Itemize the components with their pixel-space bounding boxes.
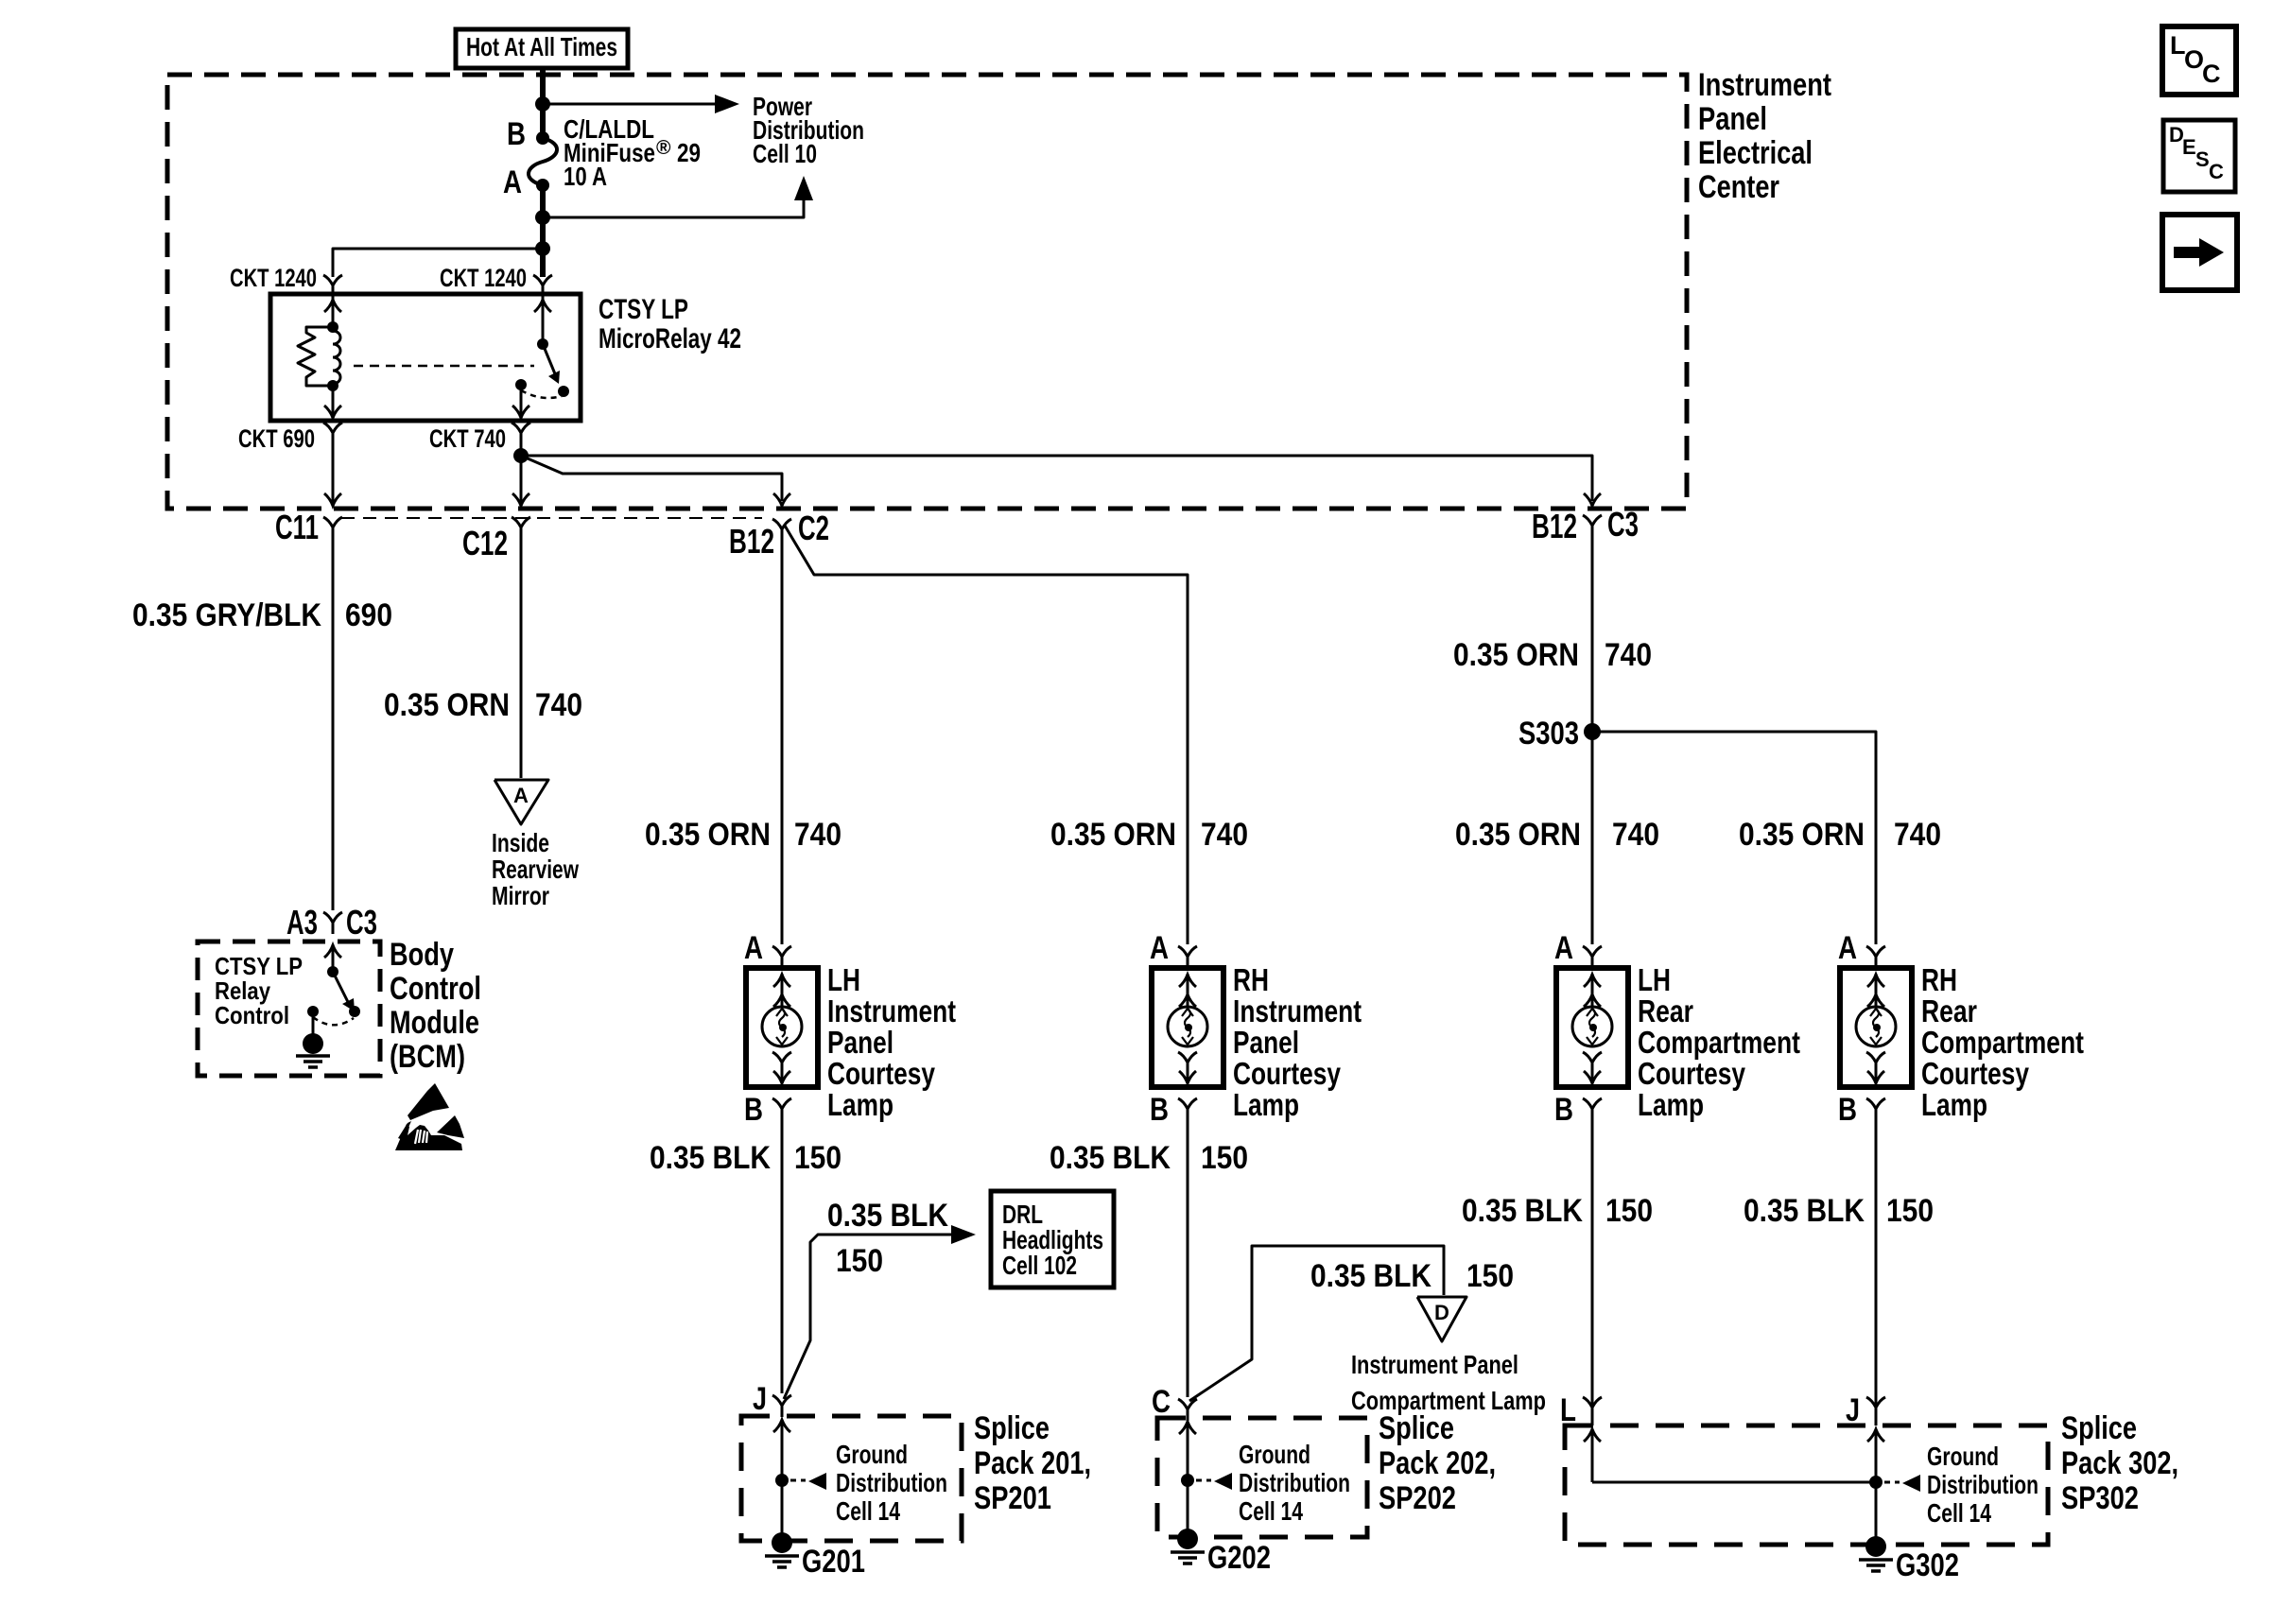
- svg-text:D: D: [1434, 1301, 1449, 1324]
- splice pack 302 enclosure (dashed): [1565, 1425, 2048, 1545]
- svg-text:Distribution: Distribution: [1927, 1470, 2039, 1499]
- svg-text:SP202: SP202: [1379, 1480, 1456, 1516]
- wire: IP compartment lamp branch: [1189, 1246, 1444, 1401]
- svg-text:0.35 BLK: 0.35 BLK: [1744, 1193, 1865, 1229]
- svg-text:LH: LH: [827, 962, 860, 997]
- svg-text:Lamp: Lamp: [1921, 1087, 1987, 1122]
- wire L into SP302: [1584, 1429, 1601, 1442]
- svg-text:0.35 ORN: 0.35 ORN: [1453, 637, 1579, 673]
- svg-text:C3: C3: [1607, 505, 1639, 544]
- svg-text:Panel: Panel: [1233, 1025, 1299, 1060]
- svg-text:B12: B12: [1532, 507, 1577, 545]
- wire J into SP302: [1867, 1429, 1884, 1442]
- wire 150: RH IP lamp to splice pack 202: [1187, 1120, 1189, 1397]
- splice junction (SP302): [1869, 1476, 1883, 1489]
- svg-text:S303: S303: [1518, 716, 1579, 752]
- svg-text:RH: RH: [1921, 962, 1957, 997]
- svg-text:O: O: [2184, 45, 2204, 74]
- wire: branch to relay coil input: [333, 249, 543, 277]
- relay switch output lead: [520, 385, 523, 416]
- ground distribution ref (SP202): [1196, 1479, 1211, 1482]
- svg-text:Control: Control: [215, 1001, 289, 1029]
- svg-text:C11: C11: [275, 508, 319, 546]
- svg-text:29: 29: [677, 138, 701, 167]
- svg-text:A: A: [503, 164, 522, 200]
- svg-text:G201: G201: [802, 1544, 865, 1580]
- junction: relay feed split: [535, 241, 550, 256]
- svg-text:B: B: [1838, 1092, 1857, 1128]
- svg-text:Center: Center: [1698, 169, 1779, 205]
- svg-text:740: 740: [1894, 817, 1941, 853]
- ground distribution ref (SP302): [1884, 1481, 1900, 1484]
- svg-text:C: C: [2202, 60, 2221, 88]
- wire 150: LH rear lamp to splice pack 302: [1591, 1120, 1594, 1425]
- svg-text:G202: G202: [1207, 1540, 1271, 1576]
- legend box: page arrow: [2162, 215, 2237, 290]
- svg-text:Rearview: Rearview: [492, 855, 579, 884]
- svg-text:0.35 BLK: 0.35 BLK: [827, 1198, 948, 1234]
- off-page ref A: inside rearview mirror: [495, 780, 548, 824]
- svg-text:CTSY LP: CTSY LP: [599, 294, 688, 325]
- svg-text:B: B: [507, 116, 526, 152]
- svg-text:B: B: [1150, 1092, 1169, 1128]
- svg-text:Courtesy: Courtesy: [1638, 1056, 1746, 1091]
- svg-text:0.35 ORN: 0.35 ORN: [1050, 817, 1176, 853]
- relay coil input lead: [332, 297, 335, 327]
- svg-text:Courtesy: Courtesy: [827, 1056, 936, 1091]
- wire into SP202: [1179, 1422, 1196, 1434]
- svg-text:(BCM): (BCM): [390, 1039, 465, 1075]
- splice pack 202 enclosure (dashed): [1157, 1418, 1367, 1537]
- svg-text:Distribution: Distribution: [836, 1468, 947, 1497]
- svg-text:C: C: [2209, 160, 2224, 183]
- svg-text:A: A: [1554, 930, 1573, 966]
- ESD sensitivity symbol: [395, 1083, 464, 1150]
- ground distribution ref (SP201): [790, 1479, 806, 1482]
- wire: 740 feed to B12/C2: [521, 456, 782, 501]
- wire 740: B12/C3 to S303: [1591, 535, 1594, 732]
- svg-text:Cell 14: Cell 14: [836, 1496, 900, 1526]
- wire: power distribution branch 2: [543, 187, 804, 217]
- BCM enclosure (dashed): CTSY LP Relay Control: [198, 942, 380, 1076]
- svg-text:0.35 ORN: 0.35 ORN: [384, 687, 510, 723]
- svg-text:0.35 BLK: 0.35 BLK: [1462, 1193, 1583, 1229]
- wire CKT 740 down to C12: [520, 444, 523, 503]
- svg-text:Pack 202,: Pack 202,: [1379, 1445, 1496, 1481]
- svg-text:Splice: Splice: [2061, 1410, 2137, 1446]
- svg-text:Module: Module: [390, 1005, 479, 1041]
- svg-text:Ground: Ground: [836, 1440, 908, 1469]
- svg-text:Splice: Splice: [974, 1410, 1050, 1446]
- svg-text:A: A: [513, 784, 529, 807]
- svg-text:Instrument: Instrument: [1698, 67, 1831, 103]
- svg-text:®: ®: [656, 137, 671, 159]
- svg-text:J: J: [1846, 1392, 1860, 1428]
- svg-text:S: S: [2195, 147, 2210, 171]
- splice S303: [1584, 723, 1601, 740]
- svg-text:740: 740: [1605, 637, 1652, 673]
- svg-text:0.35 BLK: 0.35 BLK: [650, 1140, 771, 1176]
- svg-text:Pack 302,: Pack 302,: [2061, 1445, 2178, 1481]
- off-page ref D: instrument panel compartment lamp: [1417, 1297, 1466, 1341]
- svg-text:SP201: SP201: [974, 1480, 1051, 1516]
- wire: power distribution branch 1: [543, 103, 717, 106]
- svg-text:740: 740: [1201, 817, 1248, 853]
- BCM internal ground: [303, 1033, 323, 1054]
- svg-text:0.35 ORN: 0.35 ORN: [1455, 817, 1581, 853]
- svg-text:Distribution: Distribution: [1239, 1468, 1350, 1497]
- svg-text:Splice: Splice: [1379, 1410, 1454, 1446]
- wire 740: B12/C2 to LH IP lamp: [781, 541, 784, 944]
- svg-text:Instrument: Instrument: [827, 993, 956, 1028]
- ground G202: [1177, 1529, 1198, 1549]
- svg-text:B: B: [1554, 1092, 1573, 1128]
- fuse F29: C/LALDL MiniFuse 29 10 A: [536, 131, 549, 145]
- svg-text:740: 740: [1612, 817, 1659, 853]
- wire 740: C12 to inside rearview mirror: [520, 539, 523, 778]
- wire: 740 feed across to B12/C3: [521, 456, 1592, 501]
- off-page box: DRL Headlights Cell 102: [991, 1191, 1114, 1287]
- svg-text:Pack 201,: Pack 201,: [974, 1445, 1091, 1481]
- svg-text:0.35 ORN: 0.35 ORN: [645, 817, 771, 853]
- svg-text:C: C: [1152, 1384, 1171, 1420]
- svg-text:A: A: [1838, 930, 1857, 966]
- svg-text:A: A: [1150, 930, 1169, 966]
- svg-text:150: 150: [794, 1140, 842, 1176]
- svg-text:Lamp: Lamp: [1233, 1087, 1299, 1122]
- splice link wire (SP302): [1592, 1481, 1876, 1484]
- svg-text:Ground: Ground: [1927, 1442, 1999, 1471]
- wire CKT 690 down to C11: [332, 444, 335, 503]
- wire: fuse output down to relay: [540, 185, 546, 277]
- relay coil output lead: [332, 386, 335, 416]
- svg-text:MicroRelay 42: MicroRelay 42: [599, 323, 741, 354]
- svg-text:Rear: Rear: [1638, 993, 1693, 1028]
- svg-text:740: 740: [794, 817, 842, 853]
- svg-text:E: E: [2182, 135, 2196, 159]
- svg-text:Hot At All Times: Hot At All Times: [466, 32, 617, 61]
- svg-text:C12: C12: [462, 524, 508, 562]
- svg-text:L: L: [1560, 1392, 1576, 1428]
- svg-text:Cell 14: Cell 14: [1239, 1496, 1303, 1526]
- splice junction (SP202): [1181, 1474, 1194, 1487]
- svg-text:Rear: Rear: [1921, 993, 1977, 1028]
- wire 740: S303 to LH rear lamp: [1591, 732, 1594, 944]
- svg-text:Courtesy: Courtesy: [1921, 1056, 2030, 1091]
- svg-text:Cell 102: Cell 102: [1002, 1251, 1077, 1280]
- svg-text:CKT 740: CKT 740: [429, 424, 506, 453]
- svg-text:Courtesy: Courtesy: [1233, 1056, 1342, 1091]
- svg-text:A3: A3: [286, 903, 318, 942]
- svg-text:Cell 10: Cell 10: [753, 139, 817, 168]
- wire 150: LH IP lamp to splice pack 201: [781, 1120, 784, 1393]
- svg-text:RH: RH: [1233, 962, 1269, 997]
- svg-text:B12: B12: [729, 522, 774, 561]
- svg-text:B: B: [744, 1092, 763, 1128]
- splice junction (SP201): [775, 1474, 789, 1487]
- relay resistor (parallel with coil): [298, 327, 333, 386]
- svg-text:Lamp: Lamp: [1638, 1087, 1704, 1122]
- relay mechanical link (dashed): [354, 365, 534, 368]
- svg-text:Instrument Panel: Instrument Panel: [1351, 1350, 1518, 1379]
- svg-text:Instrument: Instrument: [1233, 993, 1362, 1028]
- junction: power distribution tap 1: [535, 96, 550, 112]
- svg-text:CKT 690: CKT 690: [238, 424, 315, 453]
- svg-text:Inside: Inside: [492, 828, 549, 857]
- power label box: Hot At All Times: [456, 29, 628, 68]
- relay switch contacts: [558, 386, 569, 397]
- junction S on CKT 740: [513, 448, 529, 463]
- svg-text:150: 150: [1466, 1258, 1514, 1294]
- svg-text:Compartment: Compartment: [1638, 1025, 1800, 1060]
- svg-text:0.35 BLK: 0.35 BLK: [1310, 1258, 1431, 1294]
- BCM switch (CTSY LP relay driver): [332, 944, 335, 972]
- svg-text:Compartment: Compartment: [1921, 1025, 2084, 1060]
- junction: power distribution tap 2: [535, 210, 550, 225]
- svg-text:150: 150: [1886, 1193, 1934, 1229]
- svg-text:C2: C2: [798, 509, 829, 547]
- wire: battery feed from Hot At All Times into IPEC: [540, 68, 546, 138]
- svg-text:690: 690: [345, 597, 392, 633]
- wire 150: RH rear lamp to splice pack 302: [1875, 1120, 1878, 1425]
- wire into SP201: [773, 1420, 790, 1432]
- svg-text:G302: G302: [1896, 1547, 1959, 1583]
- relay switch common lead: [542, 297, 545, 344]
- svg-text:Mirror: Mirror: [492, 881, 549, 910]
- svg-text:Panel: Panel: [1698, 101, 1767, 137]
- splice pack 201 enclosure (dashed): [741, 1416, 962, 1541]
- svg-text:150: 150: [1201, 1140, 1248, 1176]
- svg-text:A: A: [744, 930, 763, 966]
- svg-text:Ground: Ground: [1239, 1440, 1310, 1469]
- svg-text:Electrical: Electrical: [1698, 135, 1813, 171]
- legend box DESC: [2163, 120, 2235, 192]
- svg-text:Control: Control: [390, 971, 481, 1007]
- relay coil: [327, 321, 338, 333]
- svg-text:Body: Body: [390, 937, 454, 973]
- svg-text:J: J: [753, 1381, 767, 1417]
- svg-text:CKT 1240: CKT 1240: [440, 264, 527, 292]
- svg-text:C3: C3: [346, 903, 377, 942]
- connector boundary line (thin dashed): [341, 517, 762, 519]
- enclosure: Instrument Panel Electrical Center (dashed): [167, 75, 1687, 509]
- svg-text:150: 150: [1605, 1193, 1653, 1229]
- svg-text:150: 150: [836, 1243, 883, 1279]
- svg-text:Cell 14: Cell 14: [1927, 1498, 1991, 1528]
- svg-text:SP302: SP302: [2061, 1480, 2139, 1516]
- wire 740: S303 branch to RH rear lamp: [1592, 732, 1876, 944]
- legend box LOC: [2162, 26, 2236, 95]
- svg-text:Panel: Panel: [827, 1025, 894, 1060]
- svg-text:0.35 BLK: 0.35 BLK: [1050, 1140, 1171, 1176]
- svg-text:10 A: 10 A: [564, 162, 607, 191]
- wire 690: C11 to BCM: [332, 539, 335, 910]
- relay K42 box: CTSY LP MicroRelay 42: [270, 294, 581, 421]
- ground G201: [772, 1532, 792, 1553]
- svg-text:0.35 ORN: 0.35 ORN: [1739, 817, 1865, 853]
- wire: DRL headlights branch: [784, 1235, 951, 1399]
- relay switch arm: [537, 338, 548, 350]
- wire 740: B12/C2 branch to RH IP lamp: [785, 526, 1188, 944]
- svg-text:CKT 1240: CKT 1240: [230, 264, 317, 292]
- svg-text:740: 740: [535, 687, 582, 723]
- svg-text:Lamp: Lamp: [827, 1087, 894, 1122]
- svg-text:0.35 GRY/BLK: 0.35 GRY/BLK: [132, 597, 321, 633]
- ground G302: [1865, 1536, 1886, 1557]
- svg-text:LH: LH: [1638, 962, 1671, 997]
